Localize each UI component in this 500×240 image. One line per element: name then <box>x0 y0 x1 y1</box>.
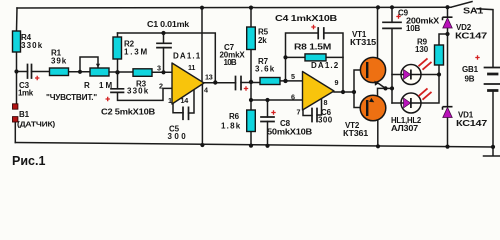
svg-text:330k: 330k <box>127 87 149 96</box>
svg-text:Рис.1: Рис.1 <box>12 154 45 168</box>
svg-text:300: 300 <box>318 116 333 125</box>
svg-text:АЛ307: АЛ307 <box>391 124 419 133</box>
svg-text:R6: R6 <box>229 112 240 121</box>
svg-text:"ЧУВСТВИТ.": "ЧУВСТВИТ." <box>46 93 97 102</box>
svg-text:(ДАТЧИК): (ДАТЧИК) <box>17 120 56 129</box>
svg-text:9: 9 <box>335 78 339 87</box>
svg-text:1М: 1М <box>99 81 113 90</box>
svg-text:2: 2 <box>159 82 163 91</box>
svg-text:7: 7 <box>297 108 301 117</box>
svg-text:DA1.2: DA1.2 <box>311 61 339 70</box>
svg-text:5: 5 <box>291 72 295 81</box>
svg-text:B1: B1 <box>19 110 30 119</box>
svg-text:R8 1.5М: R8 1.5М <box>294 43 332 52</box>
svg-text:DA1.1: DA1.1 <box>173 52 201 61</box>
svg-text:6: 6 <box>291 93 295 102</box>
svg-text:КС147: КС147 <box>456 119 488 128</box>
svg-text:C2 5mkX10В: C2 5mkX10В <box>101 108 155 117</box>
svg-text:3: 3 <box>157 64 161 73</box>
svg-text:C1 0.01mk: C1 0.01mk <box>147 20 190 29</box>
svg-text:130: 130 <box>415 45 429 54</box>
svg-text:C4 1mkX10В: C4 1mkX10В <box>275 14 338 23</box>
svg-text:50mkX10В: 50mkX10В <box>267 128 312 137</box>
svg-text:1: 1 <box>168 96 172 105</box>
svg-text:SA1: SA1 <box>463 7 484 16</box>
svg-text:11: 11 <box>188 63 195 72</box>
svg-text:КТ315: КТ315 <box>350 38 377 47</box>
svg-text:1.3М: 1.3М <box>124 48 148 57</box>
svg-text:10В: 10В <box>406 24 420 33</box>
svg-text:14: 14 <box>181 96 189 105</box>
svg-text:1.8k: 1.8k <box>221 122 241 131</box>
svg-text:R: R <box>84 81 90 90</box>
svg-text:4: 4 <box>204 86 208 95</box>
svg-text:13: 13 <box>205 73 213 82</box>
svg-text:GB1: GB1 <box>462 65 479 74</box>
svg-text:КС147: КС147 <box>455 32 488 41</box>
svg-text:8: 8 <box>324 98 328 107</box>
svg-text:330k: 330k <box>21 41 43 50</box>
svg-text:3.6k: 3.6k <box>255 65 275 74</box>
svg-text:9В: 9В <box>465 75 475 84</box>
svg-text:300: 300 <box>168 132 187 141</box>
svg-text:1mk: 1mk <box>18 89 34 98</box>
svg-text:КТ361: КТ361 <box>343 129 369 138</box>
svg-text:10В: 10В <box>224 58 237 67</box>
svg-text:39k: 39k <box>51 57 67 66</box>
svg-text:2k: 2k <box>258 36 267 45</box>
